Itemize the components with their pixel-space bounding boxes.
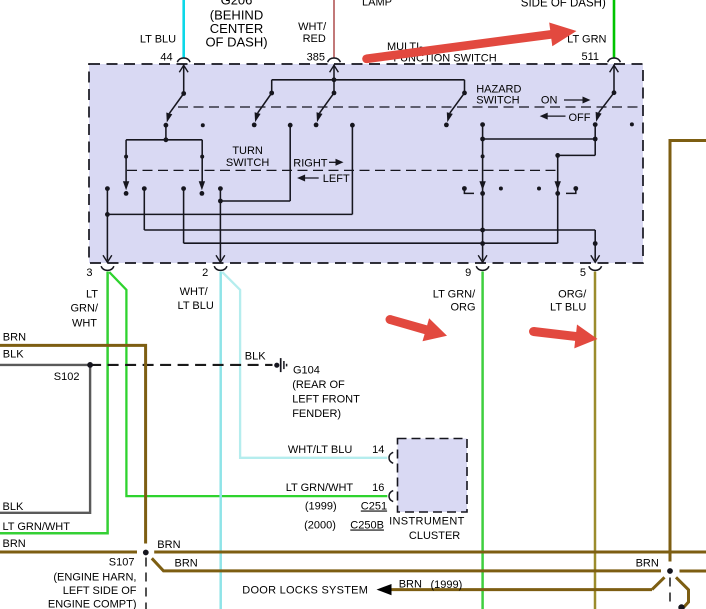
svg-text:LT BLU: LT BLU [178,300,214,312]
svg-text:BRN: BRN [3,538,26,550]
svg-text:LT GRN/: LT GRN/ [433,289,476,301]
svg-text:CLUSTER: CLUSTER [409,530,460,542]
svg-text:ENGINE COMPT): ENGINE COMPT) [48,598,137,609]
svg-text:TURN: TURN [232,145,263,157]
svg-text:BRN: BRN [3,332,26,344]
svg-text:DOOR LOCKS SYSTEM: DOOR LOCKS SYSTEM [242,585,368,597]
svg-text:C251: C251 [361,501,387,513]
svg-text:S107: S107 [109,557,135,569]
svg-text:RIGHT: RIGHT [293,157,328,169]
svg-text:GRN/: GRN/ [71,303,99,315]
svg-text:LT GRN: LT GRN [567,33,606,45]
svg-text:5: 5 [580,267,586,279]
svg-text:2: 2 [202,267,208,279]
svg-text:14: 14 [372,444,384,456]
svg-text:9: 9 [465,267,471,279]
svg-text:OFF: OFF [569,112,591,124]
svg-text:3: 3 [86,267,92,279]
svg-text:(BEHIND: (BEHIND [210,7,263,22]
svg-text:LT GRN/WHT: LT GRN/WHT [3,521,71,533]
svg-text:S102: S102 [54,371,80,383]
svg-text:LT BLU: LT BLU [140,33,176,45]
svg-text:LT BLU: LT BLU [550,302,586,314]
svg-text:LT: LT [86,289,98,301]
svg-text:G104: G104 [293,364,320,376]
svg-text:(ENGINE HARN,: (ENGINE HARN, [53,572,136,584]
svg-text:BRN: BRN [175,558,198,570]
svg-text:ORG/: ORG/ [558,289,587,301]
svg-text:BLK: BLK [3,501,24,513]
svg-text:INSTRUMENT: INSTRUMENT [389,516,465,528]
svg-text:SIDE OF DASH): SIDE OF DASH) [521,0,606,9]
svg-text:SWITCH: SWITCH [476,95,519,107]
svg-text:ON: ON [541,95,558,107]
svg-text:LEFT: LEFT [323,173,350,185]
svg-text:(1999): (1999) [305,501,337,513]
svg-text:LEFT FRONT: LEFT FRONT [292,394,360,406]
svg-text:WHT/LT BLU: WHT/LT BLU [288,444,352,456]
svg-text:RED: RED [303,33,326,45]
svg-text:FENDER): FENDER) [292,408,341,420]
svg-text:ORG: ORG [450,302,475,314]
svg-text:LT GRN/WHT: LT GRN/WHT [286,482,354,494]
svg-text:44: 44 [160,52,172,64]
svg-text:SWITCH: SWITCH [226,157,269,169]
svg-text:LEFT SIDE OF: LEFT SIDE OF [63,585,137,597]
svg-text:BLK: BLK [3,349,24,361]
svg-text:BLK: BLK [245,351,266,363]
svg-text:WHT/: WHT/ [298,21,327,33]
svg-text:BRN: BRN [636,558,659,570]
svg-text:BRN: BRN [399,579,422,591]
svg-text:16: 16 [372,482,384,494]
svg-text:BRN: BRN [157,539,180,551]
svg-text:OF DASH): OF DASH) [205,34,267,49]
svg-text:LAMP: LAMP [362,0,392,9]
svg-text:(REAR OF: (REAR OF [292,379,345,391]
svg-text:C250B: C250B [350,520,384,532]
svg-text:WHT: WHT [72,317,97,329]
svg-text:385: 385 [307,51,325,63]
svg-text:511: 511 [581,51,599,63]
svg-text:(2000): (2000) [304,520,336,532]
svg-text:(1999): (1999) [431,579,463,591]
svg-text:WHT/: WHT/ [180,286,209,298]
